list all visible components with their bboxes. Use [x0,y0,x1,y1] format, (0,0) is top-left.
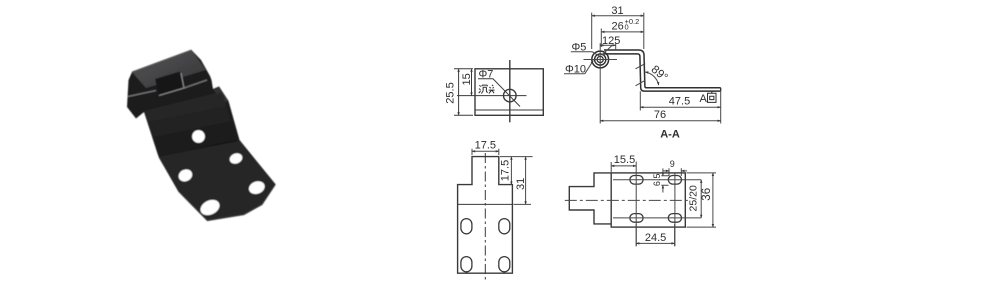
svg-text:31: 31 [611,5,623,17]
dim 25.5 ext lines [454,69,473,116]
rolled hinge middle circle [595,54,606,65]
dim 31 right line [525,157,527,205]
bracket hinge top face [132,50,206,88]
dim 25.5 line [458,69,460,116]
slot p1 [630,176,643,185]
svg-text:Φ7: Φ7 [479,69,494,81]
dim 6.5 ext [661,176,668,186]
bracket hinge notch [155,72,184,96]
bracket hinge seam [128,80,207,97]
dim 26 line [601,31,644,33]
dim 15 line [471,69,473,96]
hole oval 3 [247,179,266,196]
profile end cap [720,88,722,91]
centerline vertical of roll [599,43,601,123]
dim 47.5 line [640,106,720,108]
svg-text:31: 31 [515,178,527,190]
dim 9 ext [669,168,681,176]
hole centerline horizontal [457,95,527,97]
dim 6.5 arrows [662,168,664,175]
hole circle [504,89,517,102]
bracket body silhouette [127,50,276,221]
rolled hinge inner circle [597,56,603,62]
dim 17.5 right line [510,157,512,185]
slot top-right [499,219,510,234]
svg-text:24.5: 24.5 [645,232,666,244]
bracket flange face [159,141,276,221]
dim 76 line [600,120,721,122]
bracket bottom edge sheen [179,184,276,220]
plan tab outline [569,173,611,224]
dim 9 arrows [663,170,669,172]
bracket slope face [144,92,237,155]
slot p4 [668,214,681,223]
bracket hinge right leaf [213,87,229,105]
column line right [674,173,676,246]
row line top [613,179,701,181]
hole oval 4 [198,197,222,218]
angle ticks on wall [636,64,646,86]
hole oval 1 [228,152,244,166]
svg-text:36: 36 [701,188,713,201]
dim 31 line [592,15,644,17]
dim 12.5 line [600,44,616,46]
dim 12.5 ext line [615,43,617,51]
leader line countersink [478,79,520,107]
svg-text:89°: 89° [649,64,670,84]
dim 15.5 line [611,165,636,167]
dim 24.5 ext [636,224,674,246]
plate thickness line [475,109,543,111]
plan centerline horizontal [565,199,689,201]
dim 31 ext lines [592,13,644,49]
ext line fold right [514,203,532,205]
slot top-left [461,219,472,234]
svg-text:125: 125 [602,35,620,47]
slot bottom-right [499,257,510,272]
angle 89 arc [645,72,659,85]
profile outer line [604,50,721,88]
hole centerline vertical [509,60,511,122]
profile inner line [604,54,721,91]
svg-text:76: 76 [654,109,666,121]
hole round countersunk [192,130,205,143]
slot p2 [668,176,681,185]
svg-text:Φ5: Φ5 [572,42,587,54]
leader phi5 [571,52,600,57]
svg-text:9: 9 [670,159,675,169]
leader to pin center [602,46,613,56]
dim 36 line [712,173,714,227]
svg-text:6.5: 6.5 [652,174,662,187]
dim 15.5 ext [610,162,612,172]
rolled hinge outer circle [592,51,609,68]
dim 26 ext line [600,29,602,48]
bracket notch edge highlight [159,73,184,96]
dim 36 ext [687,173,717,227]
svg-text:15.5: 15.5 [614,154,635,166]
slot p3 [630,214,643,223]
svg-text:25/20: 25/20 [688,185,700,211]
centerline horizontal of roll [584,59,618,61]
dim 24.5 line [636,242,674,244]
svg-text:0: 0 [625,22,629,31]
plate outline [475,69,543,116]
bracket top edge highlight [132,50,192,72]
dim 47.5 ext line [640,91,720,123]
dim 25/20 line [700,180,702,218]
ext line top right [500,156,533,158]
svg-text:Φ10: Φ10 [565,64,586,76]
svg-text:26: 26 [612,21,624,33]
dim 17.5 top ext [472,149,499,155]
slot bottom-left [461,257,472,272]
svg-text:15: 15 [461,73,473,85]
xiang glyph box [708,91,717,102]
svg-text:A: A [700,93,708,105]
centerline vertical [484,153,486,282]
column line left [635,162,637,247]
fold line [458,203,513,205]
dim 17.5 top line [472,150,499,152]
svg-text:47.5: 47.5 [669,96,690,108]
text chentou (countersunk) [479,85,495,94]
svg-text:25.5: 25.5 [445,82,457,103]
svg-text:17.5: 17.5 [500,160,512,181]
svg-text:A-A: A-A [660,129,680,141]
hole oval 2 [177,167,195,183]
plan outline rect [611,173,685,227]
row line bottom [613,217,701,219]
leader phi10 [564,73,585,75]
svg-text:17.5: 17.5 [475,139,496,151]
front outline [458,157,513,274]
